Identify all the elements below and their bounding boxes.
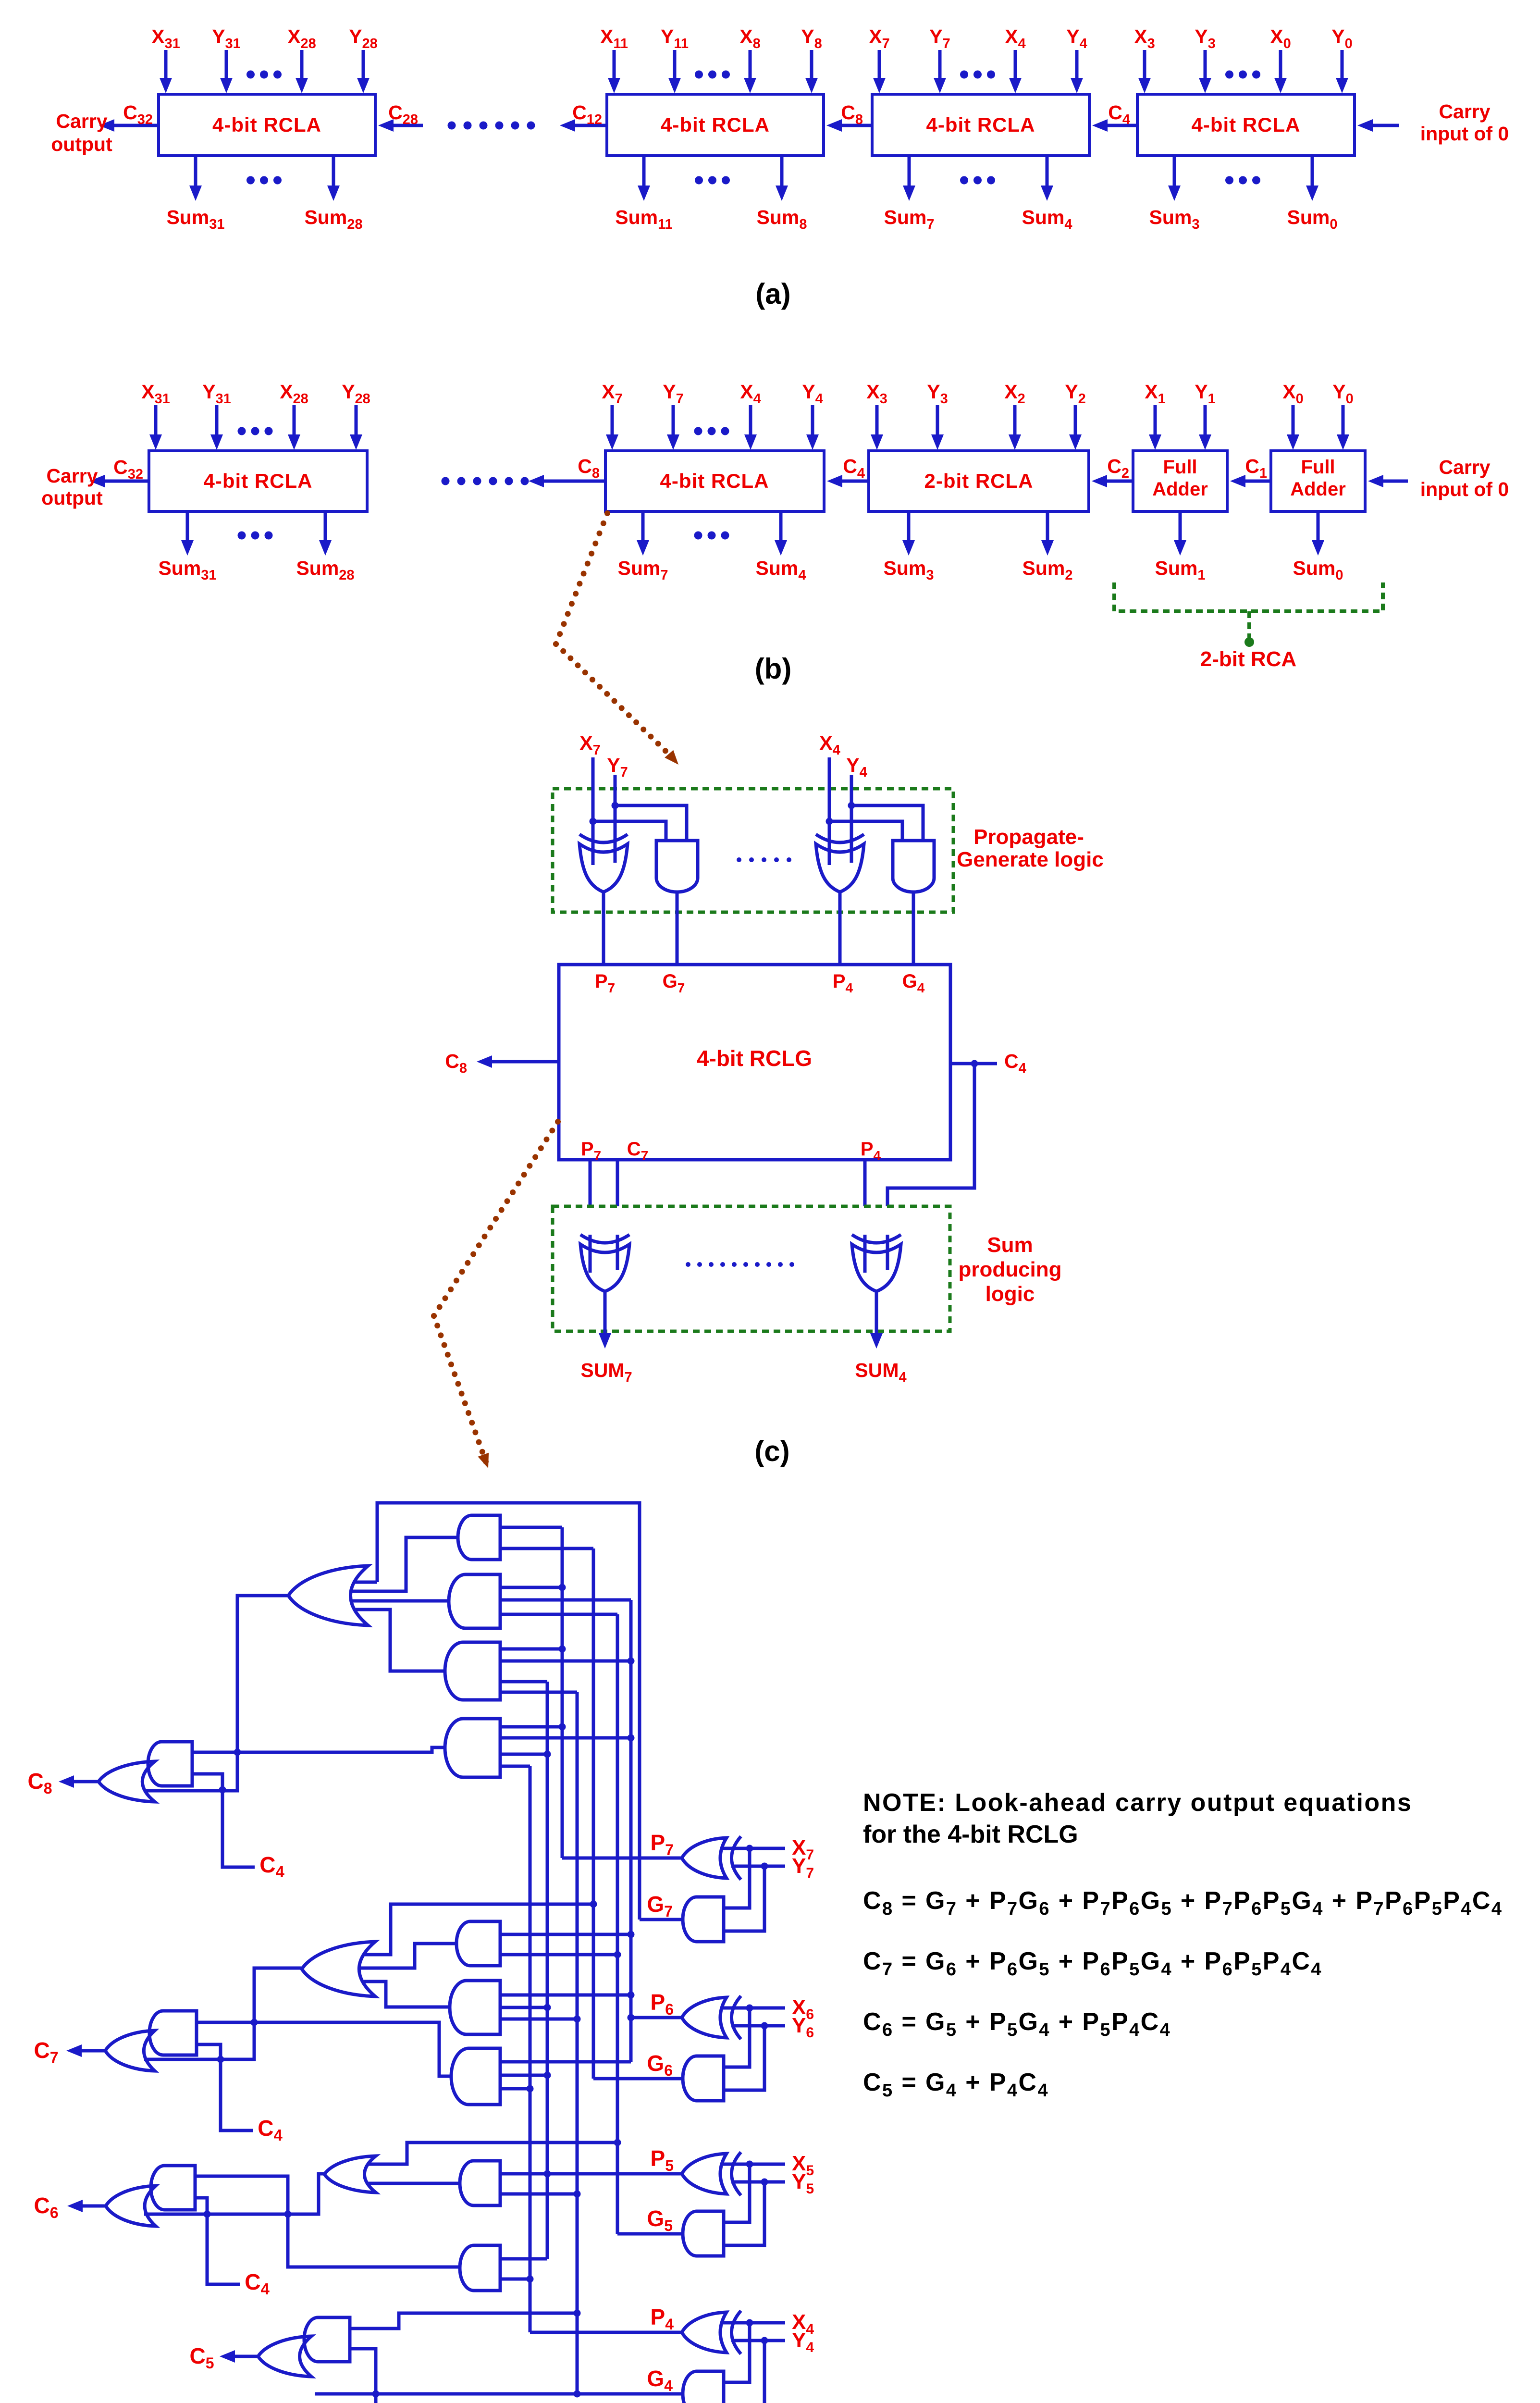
X7 input line — [723, 1847, 785, 1850]
svg-text:Sum: Sum — [987, 1233, 1033, 1257]
OR gate OR2-C8 output — [99, 1761, 155, 1802]
OR gate OR4 (C7 first-level) — [302, 1942, 375, 1996]
4-bit RCLA block bits31-28 (panel b) — [149, 451, 367, 511]
input arrow X0 (panel a) — [1279, 50, 1282, 80]
C8 output arrow (panel c) — [490, 1060, 559, 1064]
OR5 input2 wire from A1 — [336, 1537, 458, 1591]
4-bit RCLA block #3 (panel a) — [872, 94, 1089, 156]
Y4 input wire — [850, 775, 853, 860]
sum arrow Sum0 (panel b) — [1317, 511, 1320, 542]
G4 gate input taps — [711, 2323, 750, 2382]
SUM4 output arrow — [875, 1291, 878, 1335]
input arrow X7 (panel b) — [611, 405, 614, 436]
svg-text:Adder: Adder — [1152, 479, 1208, 500]
ellipsis dots (panel a inputs) — [960, 71, 968, 79]
AND gate G7 (panel c) — [656, 841, 698, 892]
wire AND2 top input C6 (long wire to D2) — [195, 2176, 460, 2267]
AND gate G4 (panel c) — [893, 841, 934, 892]
G4 wire into RCLG — [912, 892, 915, 965]
input arrow X28 (panel a) — [300, 50, 304, 80]
input arrow X0 (panel b) — [1292, 405, 1295, 436]
ellipsis dots (panel a sums) — [960, 176, 968, 185]
AND gate B0 (P6G5) — [456, 1921, 500, 1966]
ellipsis dots (panel b block1 inputs) — [238, 427, 246, 435]
svg-text:(b): (b) — [755, 653, 792, 685]
input arrow Y3 (panel a) — [1204, 50, 1207, 80]
XOR gate SUM4 (panel c) — [852, 1244, 901, 1291]
AND gate G6 — [683, 2056, 724, 2101]
bus P6 vertical — [629, 1600, 633, 2062]
input arrow Y28 (panel a) — [362, 50, 365, 80]
AND gate G4 — [683, 2371, 724, 2403]
wire AND2 top input C7 (long wire to B2) — [197, 2022, 451, 2076]
svg-text:4-bit RCLA: 4-bit RCLA — [926, 113, 1035, 136]
P4 wire into RCLG — [838, 892, 842, 965]
2-bit RCLA block (panel b) — [869, 451, 1089, 511]
bus G4 vertical — [576, 1692, 579, 2394]
input arrow X8 (panel a) — [749, 50, 752, 80]
4-bit RCLA block #1 (panel a) — [159, 94, 375, 156]
A3 input wires — [501, 1647, 562, 1651]
input arrow Y11 (panel a) — [673, 50, 677, 80]
input arrow X28 (panel b) — [293, 405, 296, 436]
SUM7 output arrow — [604, 1291, 607, 1335]
B0 input wires — [501, 1933, 631, 1936]
X5 input line — [723, 2163, 785, 2166]
C6 output arrow — [81, 2205, 106, 2208]
A2 input wires — [501, 1586, 562, 1589]
ellipsis dots (PG logic) — [737, 857, 741, 862]
OR5 input1 wire (G7) — [336, 1581, 377, 1584]
B2 input wires — [501, 2060, 631, 2064]
C5 output arrow — [233, 2355, 258, 2358]
input arrow X3 (panel b) — [875, 405, 879, 436]
XOR gate SUM7 (panel c) — [580, 1244, 629, 1291]
green dashed box sum producing logic — [553, 1206, 950, 1331]
P4 wire to sum XOR — [863, 1160, 867, 1245]
arrow C1 (panel b) — [1244, 480, 1271, 483]
XOR gate P7 (panel c) — [579, 844, 628, 892]
OR3 output wire (C6) — [144, 2174, 324, 2214]
OR gate OR2-C5 output — [258, 2336, 311, 2377]
input arrow Y7 (panel b) — [672, 405, 675, 436]
OR3 input1 wire (G5 rail) — [351, 2143, 617, 2164]
sum arrow Sum2 (panel b) — [1046, 511, 1049, 542]
G5 AND output wire — [617, 2232, 683, 2236]
OR4 output wire (C7) — [144, 1968, 302, 2059]
OR4 input3 wire from B1 — [344, 1982, 450, 2007]
wire AND2 bottom input C8 to C4 — [192, 1774, 255, 1867]
X4 input line — [723, 2321, 785, 2325]
arrow into block1 (panel a) — [392, 124, 423, 127]
svg-text:4-bit RCLA: 4-bit RCLA — [204, 470, 313, 492]
arrow C12 out of block2 (panel a) — [573, 124, 607, 127]
P5 XOR output wire — [547, 2172, 682, 2176]
brown dotted arrow from panel b to panel c — [604, 510, 610, 516]
D2 input wires — [501, 2257, 547, 2261]
input arrow X11 (panel a) — [613, 50, 616, 80]
AND gate A3 (P7P6P5G4) — [445, 1642, 500, 1700]
AND gate A2 (P7P6G5) — [449, 1574, 500, 1628]
input arrow Y8 (panel a) — [810, 50, 813, 80]
XOR gate P7 — [682, 1838, 727, 1878]
sum arrow Sum7 (panel b) — [641, 511, 645, 542]
AND gate AND2-C6 — [151, 2166, 195, 2210]
svg-text:4-bit RCLA: 4-bit RCLA — [212, 113, 321, 136]
input arrow Y2 (panel b) — [1074, 405, 1077, 436]
XOR gate P4 (panel c) — [816, 844, 864, 892]
svg-text:for the 4-bit RCLG: for the 4-bit RCLG — [863, 1821, 1078, 1848]
Y7 input line — [731, 1865, 785, 1868]
svg-text:input of 0: input of 0 — [1420, 123, 1509, 145]
OR gate OR3 (C6 first-level) — [324, 2156, 376, 2192]
G7 gate input taps — [711, 1848, 750, 1908]
ellipsis dots (panel a inputs) — [246, 71, 255, 79]
ellipsis dots (panel a sums) — [246, 176, 255, 185]
ellipsis dots (panel b block2 inputs) — [694, 427, 702, 435]
4-bit RCLG box — [559, 965, 950, 1160]
bus P7 vertical — [561, 1527, 564, 1858]
AND gate A4 (P7P6P5P4) — [445, 1719, 500, 1777]
C4 input net (panel c) — [950, 1062, 997, 1065]
G6 AND output wire — [593, 2077, 683, 2081]
AND gate A1 (P7G6) — [458, 1515, 500, 1560]
sum arrow Sum31 (panel a) — [194, 156, 197, 187]
wire AND2 bottom input C7 to C4 — [197, 2044, 253, 2130]
svg-text:4-bit RCLA: 4-bit RCLA — [661, 113, 770, 136]
ellipsis dots (panel a inputs) — [1225, 71, 1233, 79]
input arrow Y0 (panel b) — [1342, 405, 1345, 436]
G4 long wire to OR2-C5 bottom input — [315, 2392, 683, 2396]
ellipsis dots (panel a inputs) — [695, 71, 703, 79]
svg-text:logic: logic — [986, 1282, 1035, 1306]
input arrow Y31 (panel b) — [215, 405, 219, 436]
arrow C4 between blocks (panel a) — [1106, 124, 1137, 127]
4-bit RCLA block #4 (panel a) — [1137, 94, 1355, 156]
ellipsis dots (panel b block2 sums) — [694, 532, 702, 540]
input arrow X31 (panel b) — [154, 405, 158, 436]
Y7 input wire — [614, 775, 617, 860]
input arrow X7 (panel a) — [878, 50, 881, 80]
P7 wire to sum XOR — [589, 1160, 592, 1245]
Y6 input line — [731, 2024, 785, 2028]
input arrow X4 (panel b) — [749, 405, 752, 436]
XOR gate P5 — [682, 2154, 727, 2194]
sum arrow Sum31 (panel b) — [186, 511, 189, 542]
svg-text:input of 0: input of 0 — [1420, 478, 1509, 500]
bus P5 vertical — [546, 1682, 549, 2259]
input arrow X31 (panel a) — [164, 50, 168, 80]
svg-text:Generate logic: Generate logic — [957, 848, 1104, 871]
carry input arrow (panel a) — [1371, 124, 1399, 127]
svg-text:Adder: Adder — [1290, 479, 1346, 500]
input arrow X1 (panel b) — [1154, 405, 1157, 436]
C8 output arrow — [72, 1780, 99, 1784]
svg-text:Carry: Carry — [56, 110, 107, 132]
AND gate B2 (P6P5P4) — [451, 2048, 500, 2105]
G7 wire into RCLG — [676, 892, 679, 965]
brown dotted arrow from panel c to panel d — [555, 1119, 561, 1125]
sum arrow Sum28 (panel b) — [324, 511, 327, 542]
ellipsis dots (sum logic) — [686, 1262, 690, 1267]
svg-text:producing: producing — [958, 1258, 1061, 1281]
X4 tap to AND — [829, 821, 902, 841]
Full Adder block bit0 (panel b) — [1271, 451, 1365, 511]
XOR gate P4 — [682, 2312, 727, 2353]
X7 tap to AND — [593, 821, 666, 841]
sum arrow Sum0 (panel a) — [1311, 156, 1314, 187]
bus P4 vertical — [529, 1766, 532, 2332]
bus G6 vertical — [592, 1548, 595, 2079]
Y4 input line — [731, 2339, 785, 2342]
svg-text:2-bit RCLA: 2-bit RCLA — [924, 470, 1034, 492]
junction dot — [219, 1786, 226, 1794]
svg-text:output: output — [41, 487, 103, 509]
green dashed box propagate-generate logic — [553, 789, 953, 912]
OR5 output wire (C8) — [144, 1596, 288, 1791]
input arrow Y7 (panel a) — [938, 50, 942, 80]
wire AND2 bottom input C6 to C4 — [195, 2198, 240, 2284]
Full Adder block bit1 (panel b) — [1133, 451, 1227, 511]
input arrow Y1 (panel b) — [1204, 405, 1207, 436]
AND gate AND2-C7 — [149, 2011, 197, 2055]
carry output arrow C32 (panel b) — [103, 480, 149, 483]
sum arrow Sum4 (panel a) — [1046, 156, 1049, 187]
input arrow Y0 (panel a) — [1341, 50, 1344, 80]
inter-stage dots (panel b) — [442, 477, 450, 485]
X6 input line — [723, 2007, 785, 2010]
svg-text:2-bit RCA: 2-bit RCA — [1200, 647, 1296, 671]
D1 input wires — [501, 2172, 547, 2176]
AND gate G5 — [683, 2211, 724, 2256]
sum arrow Sum3 (panel b) — [907, 511, 911, 542]
G7 AND output wire — [640, 1918, 683, 1921]
OR5 input4 wire from A3 — [336, 1610, 445, 1671]
OR5 input3 wire from A2 — [336, 1599, 449, 1603]
input arrow X4 (panel a) — [1014, 50, 1017, 80]
svg-text:(c): (c) — [754, 1435, 789, 1467]
sum arrow Sum1 (panel b) — [1179, 511, 1182, 542]
svg-text:Carry: Carry — [46, 465, 98, 487]
green node dot (panel b) — [1244, 637, 1254, 647]
bus G5 vertical — [616, 1614, 619, 2234]
arrow C8 between blocks (panel a) — [840, 124, 872, 127]
sum arrow Sum7 (panel a) — [908, 156, 911, 187]
OR gate OR2-C7 output — [105, 2031, 155, 2071]
svg-text:Propagate-: Propagate- — [973, 825, 1084, 849]
input arrow X2 (panel b) — [1013, 405, 1017, 436]
ellipsis dots (panel a sums) — [695, 176, 703, 185]
svg-text:Full: Full — [1163, 457, 1197, 478]
4-bit RCLA block #2 (panel a) — [607, 94, 824, 156]
sum arrow Sum4 (panel b) — [779, 511, 783, 542]
green bracket 2-bit RCA (panel b) — [1114, 582, 1383, 611]
AND gate D2 (P5P4) — [460, 2245, 500, 2291]
sum arrow Sum28 (panel a) — [332, 156, 335, 187]
A4 input wires — [501, 1725, 562, 1729]
X7 Y7 X4 Y4 wire stubs into XOR bodies — [591, 817, 595, 865]
carry output arrow C32 (panel a) — [112, 124, 159, 127]
svg-text:4-bit RCLA: 4-bit RCLA — [1192, 113, 1301, 136]
sum arrow Sum8 (panel a) — [780, 156, 784, 187]
wire AND2 bottom input C5 to C4 — [350, 2349, 407, 2403]
svg-text:(a): (a) — [755, 278, 790, 310]
input arrow Y31 (panel a) — [225, 50, 228, 80]
XOR gate P6 — [682, 1997, 727, 2038]
svg-text:Full: Full — [1301, 457, 1335, 478]
P7 XOR output wire — [562, 1857, 682, 1860]
wire AND2 top input C5 (long wire to G4 bus) — [350, 2313, 577, 2329]
input arrow Y28 (panel b) — [355, 405, 358, 436]
input arrow Y4 (panel b) — [811, 405, 814, 436]
junction dot — [234, 1749, 241, 1756]
ellipsis dots (panel a sums) — [1225, 176, 1233, 185]
X4 input wire — [828, 757, 831, 860]
sum arrow Sum11 (panel a) — [642, 156, 646, 187]
input arrow Y4 (panel a) — [1075, 50, 1079, 80]
svg-text:4-bit RCLA: 4-bit RCLA — [660, 470, 769, 492]
svg-text:Carry: Carry — [1439, 456, 1490, 478]
AND gate G7 — [683, 1897, 724, 1942]
B1 input wires — [501, 1994, 631, 1997]
C7 output arrow — [80, 2049, 105, 2053]
X7 input wire — [591, 757, 595, 860]
arrow C8 into dots (panel b) — [542, 480, 605, 483]
P4 XOR output wire — [530, 2331, 682, 2334]
AND gate AND2-C8 — [148, 1742, 192, 1786]
A1 input wires — [501, 1526, 562, 1529]
carry input arrow (panel b) — [1381, 480, 1408, 483]
bus G7 vertical and top rail — [377, 1503, 640, 1920]
svg-text:output: output — [51, 133, 112, 155]
svg-text:Carry: Carry — [1439, 100, 1490, 123]
OR4 input1 wire (G6 rail) — [344, 1904, 593, 1955]
input arrow X3 (panel a) — [1143, 50, 1146, 80]
sum arrow Sum3 (panel a) — [1173, 156, 1176, 187]
Y4 tap to AND — [851, 805, 923, 841]
C4 routing wire down to sum XOR — [887, 1064, 974, 1235]
OR3 input2 wire from D1 — [351, 2182, 460, 2185]
svg-text:NOTE: Look-ahead carry output: NOTE: Look-ahead carry output equations — [863, 1789, 1412, 1817]
Y7 tap to AND — [615, 805, 687, 841]
inter-stage dots (panel a) — [448, 122, 456, 130]
input arrow Y3 (panel b) — [936, 405, 939, 436]
G6 gate input taps — [711, 2008, 750, 2067]
wire AND2 top input C8 (long wire to A4) — [192, 1747, 445, 1752]
P6 XOR output wire — [631, 2016, 682, 2019]
G5 gate input taps — [711, 2164, 750, 2222]
arrow C2 (panel b) — [1105, 480, 1133, 483]
OR gate OR5 (C8 first-level) — [288, 1566, 368, 1625]
AND gate D1 (P5G4) — [460, 2161, 500, 2205]
ellipsis dots (panel b block1 sums) — [238, 532, 246, 540]
P7 wire into RCLG — [602, 892, 605, 965]
4-bit RCLA block bits7-4 (panel b) — [605, 451, 824, 511]
AND gate AND2-C5 — [304, 2317, 350, 2362]
C7 wire to sum XOR — [616, 1160, 619, 1245]
Y5 input line — [731, 2180, 785, 2184]
OR4 input2 wire from B0 — [344, 1944, 456, 1968]
svg-text:4-bit RCLG: 4-bit RCLG — [697, 1046, 812, 1071]
OR gate OR2-C6 output — [106, 2186, 156, 2226]
AND gate B1 (P6P5G4) — [450, 1981, 500, 2034]
arrow C4 (panel b) — [840, 480, 869, 483]
